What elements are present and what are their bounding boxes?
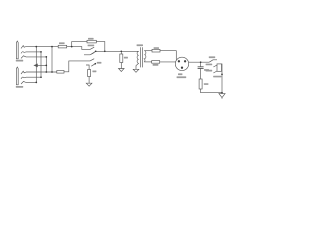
node dot bus A bottom [35,82,37,84]
switch S2 throw 1 [209,60,217,62]
jack J2 tip contact [21,71,26,74]
switch S1 throw 4 [86,65,89,70]
wire R1 to node A [67,46,72,48]
jack J1 ring contact [21,52,26,54]
label R5 [124,57,128,59]
wire primary to ground [136,63,139,69]
resistor R7 [152,61,160,64]
wire node A up [72,42,87,47]
ground G4 [219,94,225,99]
resistor R8 vertical [199,79,202,89]
jack J1 sleeve contact [21,56,26,59]
ground G1 [86,83,92,86]
wire R8 down [201,89,222,93]
resistor R1 [58,45,66,48]
jack J2 body [16,67,18,85]
switch S1 throw 3 [90,59,94,61]
jack J1 tip contact [21,46,26,49]
label R6 [154,47,159,49]
wire J1 sleeve row [26,56,46,58]
label R2 value [88,45,95,47]
node dot bus C bottom [51,71,53,73]
wire R5 to ground [120,63,122,69]
resistor R5 vertical [120,54,123,63]
label R1 [59,42,65,44]
transformer TR1 core [141,47,143,67]
node dot bus A top [35,46,37,48]
ground G3 [133,69,139,72]
label J1 [16,60,23,62]
X1 pin 2 [184,60,186,62]
jack J2 ring contact [21,77,26,79]
wire J2 sleeve row [26,81,36,83]
node dot cap tap [200,61,202,63]
node dot bus B top [45,56,47,58]
label X1 [178,73,182,75]
wire bus vertical A [35,47,37,83]
resistor R4 vertical [88,70,91,77]
switch S1 throw 2 [84,53,94,55]
switch S2 body [217,64,222,71]
switch S2 throw 2 [213,65,217,67]
node dot A [71,46,73,48]
label R7 value [153,64,159,66]
wire bus vertical D [40,52,42,77]
wire J2 resistor path [64,61,90,72]
wire R5 down [120,51,122,54]
connector X1 XLR circle [175,57,188,70]
wire secondary bottom [144,61,151,63]
node dot bus D top [40,51,42,53]
wire cap top [200,62,202,67]
capacitor C1 [198,67,204,69]
label S2 row1 [209,56,215,58]
wire S2 common [221,64,224,93]
label J2 [16,86,23,88]
resistor R6 [152,49,160,52]
wire main [96,50,139,52]
node dot R5 tap [120,50,122,52]
resistor R2 [87,40,96,43]
wire XLR out [189,61,210,63]
wire R6 to XLR [160,51,176,60]
label S2 row2 [206,64,213,66]
node dot bus C top [51,46,53,48]
jack J2 sleeve contact [21,81,26,84]
switch S1 blade [91,51,95,54]
node dot R2 join [104,50,106,52]
wire J1 tip row [26,46,58,48]
wire J1 ring row [26,51,41,53]
transformer TR1 primary [137,51,139,63]
switch S1 throw 1 [90,47,94,49]
node dot S2 common [221,73,223,75]
wire cap to R8 [200,68,202,79]
switch S2 throw 3 [213,71,217,73]
node dot bus D bottom [40,76,42,78]
resistor R3 input2 [57,71,64,74]
node dot switch lower [94,63,96,65]
wire R4 to ground [88,77,90,84]
label S1 [97,62,102,64]
label S2 below [213,76,221,78]
transformer TR1 secondary [144,51,146,62]
chassis arrow [34,64,37,67]
switch S1 blade lower [91,64,95,66]
node dot arrow junction [45,65,47,67]
wire R2 right [96,42,105,52]
label R2 [88,38,94,40]
label R4 [92,71,96,73]
wire J2 tip row [26,71,57,73]
node dot bottom join [221,92,223,94]
label TR1 [137,44,143,46]
label R8 [204,83,209,85]
node dot switch pivot [95,50,97,52]
wire secondary top [144,50,152,52]
wire R7 to XLR [160,61,176,63]
jack J1 body [16,41,18,59]
X1 pin 1 [178,60,180,62]
wire bus vertical C [51,47,53,72]
ground G2 [119,69,125,72]
label X1 type [177,76,187,78]
wire J2 ring row [26,76,41,78]
wire bus vertical B [45,57,47,72]
label C1 [204,69,209,71]
wire node A to switch [72,47,90,50]
wire arrow to bus [37,64,46,66]
X1 pin 3 [181,67,183,69]
node dot bus B bottom [45,71,47,73]
